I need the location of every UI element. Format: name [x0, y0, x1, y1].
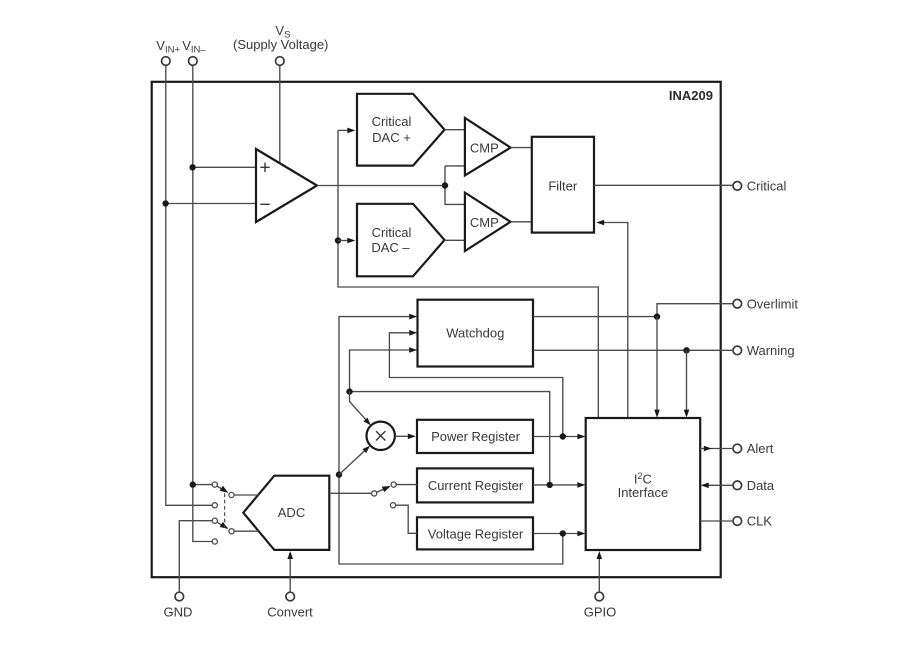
switch lower lever: [217, 522, 223, 526]
svg-text:Power Register: Power Register: [431, 429, 521, 444]
comparator CMP1: [465, 118, 511, 175]
wire Overlimit node to I2C: [656, 317, 658, 410]
block Watchdog: [418, 300, 534, 367]
junction Overlimit node: [654, 313, 660, 319]
DAC Critical DAC +: [357, 94, 445, 166]
wire GND to switch: [179, 521, 212, 593]
junction VIN+ / op-amp: [162, 200, 168, 206]
block Voltage Register: [417, 517, 533, 549]
switch demux contact to Current Register: [391, 482, 396, 487]
IC boundary INA209: [152, 82, 721, 577]
switch input contact B1 (GND): [212, 518, 217, 523]
junction op-amp output node: [442, 182, 448, 188]
wire Power Register to I2C: [533, 436, 578, 438]
switch demux contact to Voltage Register: [390, 503, 395, 508]
wire VIN+ vertical: [166, 65, 212, 505]
switch input contact B2 (VIN-): [212, 539, 217, 544]
wire comparator input bracket: [445, 166, 465, 205]
svg-text:Warning: Warning: [747, 343, 795, 358]
terminal Convert: [286, 592, 295, 601]
junction current net / multiplier tap: [346, 388, 352, 394]
svg-text:CLK: CLK: [747, 514, 773, 529]
wire GPIO to I2C: [598, 559, 600, 593]
junction Warning node: [683, 347, 689, 353]
svg-text:GND: GND: [164, 605, 193, 620]
ADC: [243, 476, 329, 550]
wire voltage net to Watchdog input 1: [339, 317, 563, 564]
terminal Overlimit: [733, 299, 742, 308]
terminal VIN+: [162, 57, 171, 66]
svg-text:Interface: Interface: [618, 485, 669, 500]
wire DAC- to CMP2: [445, 239, 465, 241]
wire Watchdog to Warning: [533, 349, 733, 351]
switch demux common contact: [372, 491, 377, 496]
svg-text:GPIO: GPIO: [584, 605, 617, 620]
terminal GPIO: [595, 592, 604, 601]
junction current net: [547, 482, 553, 488]
wire Data line: [707, 484, 733, 486]
wire current tap to multiplier: [350, 392, 366, 420]
switch upper lever: [217, 486, 223, 490]
svg-text:CMP: CMP: [470, 141, 499, 156]
svg-text:Alert: Alert: [747, 441, 774, 456]
wire Convert to ADC: [289, 559, 291, 593]
wire ADC output: [329, 492, 371, 494]
wire I2C to Filter feedback: [604, 223, 628, 418]
wire switch to ADC upper input: [234, 494, 259, 496]
terminal CLK: [733, 517, 742, 526]
wire voltage tap to multiplier: [339, 451, 365, 475]
svg-text:Current Register: Current Register: [428, 478, 524, 493]
wire I2C to DAC bus: [338, 130, 598, 418]
multiplier x sign: [376, 431, 385, 440]
svg-text:INA209: INA209: [669, 88, 713, 103]
wire Warning node to I2C: [686, 350, 688, 410]
wire arrow into Critical DAC+: [338, 129, 348, 131]
switch input contact A2 (VIN+): [212, 503, 217, 508]
terminal Warning: [733, 346, 742, 355]
block Current Register: [417, 468, 533, 502]
svg-text:Filter: Filter: [548, 179, 578, 194]
svg-text:Critical: Critical: [747, 179, 787, 194]
svg-text:Overlimit: Overlimit: [747, 296, 799, 311]
svg-text:DAC +: DAC +: [372, 130, 411, 145]
junction DAC bus tap: [335, 237, 341, 243]
junction voltage net: [560, 530, 566, 536]
comparator CMP2: [465, 193, 511, 251]
wire multiplier to Power Register: [395, 435, 408, 437]
op-amp plus sign: [260, 163, 269, 172]
wire op-amp output: [317, 185, 445, 187]
switch gang link (dashed): [224, 494, 226, 528]
wire Watchdog to Overlimit: [533, 304, 733, 317]
terminal GND: [175, 592, 184, 601]
switch input contact A1 (VIN-): [212, 482, 217, 487]
wire Current Register to I2C: [533, 484, 578, 486]
multiplier: [367, 422, 395, 450]
op-amp A1: [256, 149, 317, 222]
switch common to ADC upper: [229, 492, 234, 497]
junction VIN- / op-amp: [189, 164, 195, 170]
DAC Critical DAC -: [357, 204, 445, 276]
wire demux to Voltage Register: [396, 505, 417, 533]
wire demux to Current Register: [396, 484, 417, 486]
svg-text:Watchdog: Watchdog: [446, 326, 504, 341]
wire CLK line: [700, 520, 733, 522]
wire VIN- to switch contact: [193, 484, 212, 486]
op-amp minus sign: [260, 203, 269, 205]
svg-text:ADC: ADC: [278, 505, 305, 520]
terminal Alert: [733, 444, 742, 453]
wire VS to op-amp: [279, 65, 281, 162]
terminal Data: [733, 481, 742, 490]
svg-text:Convert: Convert: [267, 605, 313, 620]
block Power Register: [417, 420, 533, 453]
wire VIN- to op-amp noninverting input: [193, 166, 256, 168]
wire Alert output: [700, 448, 733, 450]
svg-text:(Supply Voltage): (Supply Voltage): [233, 37, 328, 52]
wire CMP1 to filter: [511, 147, 532, 149]
block I2C Interface: [586, 418, 701, 550]
svg-text:DAC –: DAC –: [371, 240, 410, 255]
wire VIN+ to op-amp inverting input: [166, 203, 256, 205]
wire VIN- vertical: [193, 65, 212, 541]
wire power net to Watchdog input 2: [389, 333, 562, 437]
svg-text:Data: Data: [747, 478, 775, 493]
wire DAC+ to CMP1: [445, 129, 465, 131]
terminal VS: [276, 57, 285, 66]
svg-text:Voltage Register: Voltage Register: [428, 526, 524, 541]
wire CMP2 to filter: [511, 221, 532, 223]
wire Filter to Critical terminal: [594, 184, 733, 186]
switch demux lever: [377, 489, 385, 492]
svg-text:Critical: Critical: [372, 114, 412, 129]
junction VIN- / switch: [190, 481, 196, 487]
terminal Critical: [733, 182, 742, 191]
junction voltage net / multiplier tap: [336, 471, 342, 477]
wire Voltage Register to I2C: [533, 533, 578, 535]
junction power net: [560, 433, 566, 439]
wire current net to Watchdog input 3: [350, 350, 550, 485]
wire switch to ADC lower input: [234, 530, 258, 532]
svg-text:Critical: Critical: [372, 225, 412, 240]
switch common to ADC lower: [229, 529, 234, 534]
block Filter: [532, 137, 594, 233]
terminal VIN-: [189, 57, 198, 66]
svg-text:CMP: CMP: [470, 215, 499, 230]
wire arrow into Critical DAC-: [338, 240, 348, 242]
